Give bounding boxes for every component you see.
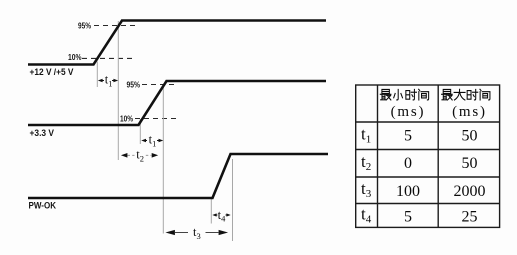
svg-text:5: 5 bbox=[404, 128, 412, 145]
svg-text:t2: t2 bbox=[136, 148, 144, 164]
svg-text:+12 V /+5 V: +12 V /+5 V bbox=[30, 67, 75, 78]
svg-text:t3: t3 bbox=[361, 179, 372, 200]
svg-text:t4: t4 bbox=[361, 205, 372, 226]
svg-text:5: 5 bbox=[404, 209, 412, 226]
svg-text:2000: 2000 bbox=[454, 183, 486, 200]
svg-text:t3: t3 bbox=[193, 225, 201, 241]
svg-text:100: 100 bbox=[396, 183, 420, 200]
svg-text:10%: 10% bbox=[68, 52, 82, 62]
svg-text:95%: 95% bbox=[78, 21, 91, 31]
svg-text:t1: t1 bbox=[149, 133, 157, 149]
svg-text:t4: t4 bbox=[218, 208, 226, 224]
svg-text:(ms): (ms) bbox=[391, 104, 426, 120]
svg-text:(ms): (ms) bbox=[452, 104, 487, 120]
svg-text:25: 25 bbox=[462, 209, 478, 226]
svg-text:50: 50 bbox=[462, 128, 478, 145]
svg-text:0: 0 bbox=[404, 155, 412, 172]
svg-text:t1: t1 bbox=[361, 125, 371, 146]
svg-text:50: 50 bbox=[462, 155, 478, 172]
svg-text:t2: t2 bbox=[361, 152, 371, 173]
svg-text:10%: 10% bbox=[120, 113, 133, 123]
svg-text:t1: t1 bbox=[105, 73, 113, 89]
svg-text:PW-OK: PW-OK bbox=[29, 201, 57, 212]
svg-text:+3.3 V: +3.3 V bbox=[30, 128, 55, 139]
svg-text:95%: 95% bbox=[127, 80, 141, 90]
